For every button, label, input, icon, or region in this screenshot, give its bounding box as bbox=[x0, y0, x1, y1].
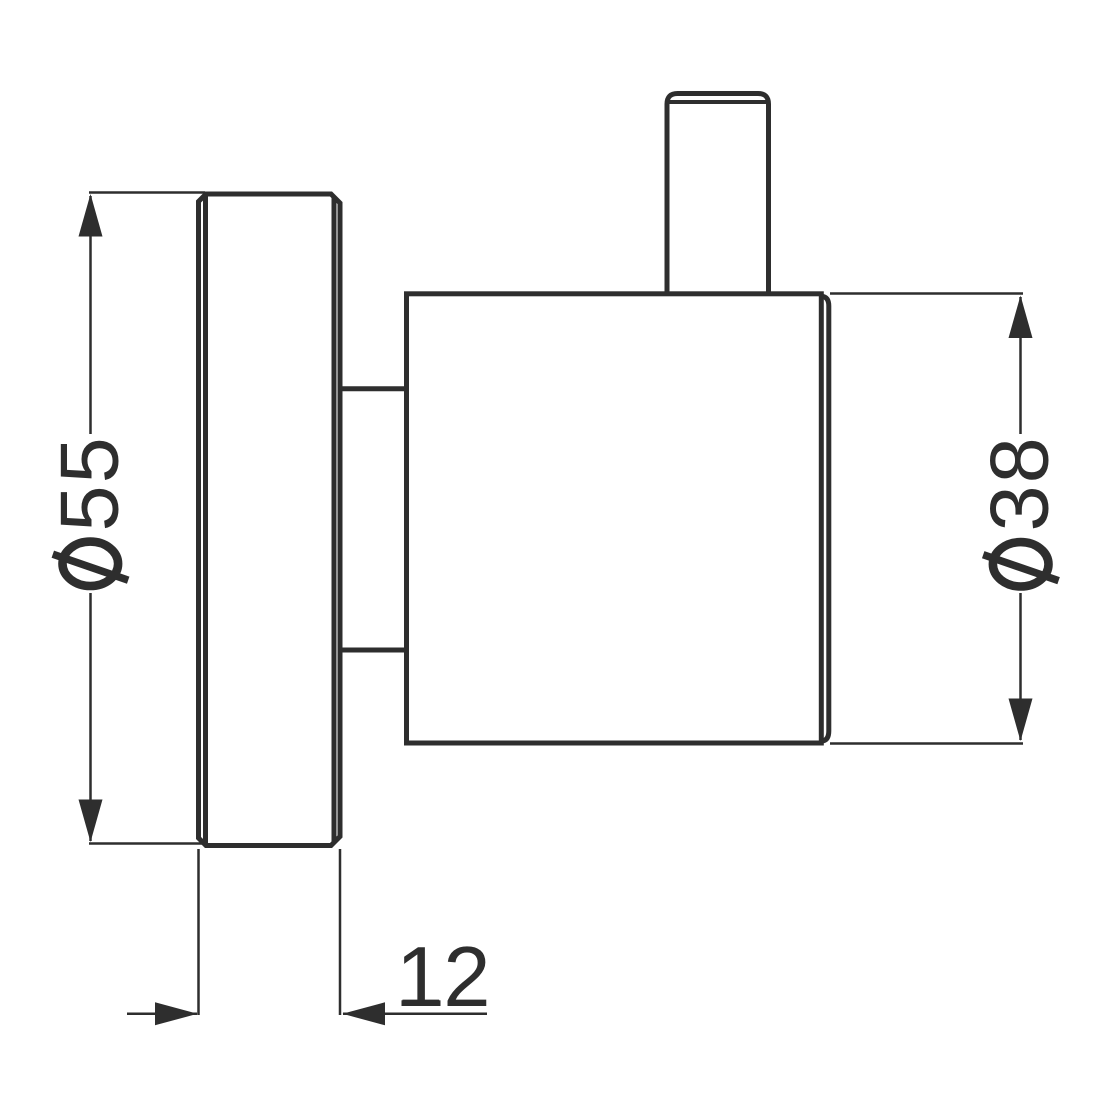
white mask behind Ø38 label bbox=[972, 434, 1068, 593]
dim Ø55 bottom arrowhead bbox=[79, 800, 103, 843]
neck top line between flange and body bbox=[339, 386, 406, 391]
label Ø38 diameter symbol bbox=[983, 542, 1058, 586]
dim Ø55 top extension line bbox=[89, 191, 205, 194]
dim Ø38 top extension line bbox=[830, 292, 1023, 295]
label 12 digit-1 bottom serif bar bbox=[402, 1000, 441, 1006]
dim 12 right dimension line bbox=[343, 1013, 487, 1016]
dim 12 right arrowhead bbox=[343, 1002, 386, 1025]
label Ø55 diameter symbol bbox=[53, 542, 128, 586]
dim Ø38 bottom extension line bbox=[830, 742, 1023, 745]
svg-text:38: 38 bbox=[973, 435, 1066, 531]
dim 12 left arrowhead bbox=[155, 1002, 198, 1025]
dim Ø38 bottom arrowhead bbox=[1009, 699, 1033, 742]
dim 12 right extension line bbox=[339, 849, 342, 1015]
dim 12 left extension line bbox=[197, 849, 200, 1015]
svg-text:12: 12 bbox=[396, 930, 491, 1025]
neck bottom line between flange and body bbox=[339, 648, 406, 653]
white mask behind Ø55 label bbox=[42, 434, 138, 593]
dim 12 left dimension line bbox=[127, 1013, 197, 1016]
flange left rim edge line bbox=[203, 197, 208, 844]
pin inner top edge line bbox=[669, 100, 767, 104]
dim Ø55 bottom extension line bbox=[89, 842, 205, 845]
dim Ø38 top arrowhead bbox=[1009, 296, 1033, 339]
dim Ø55 dimension line bbox=[89, 196, 92, 841]
top pin outline bbox=[667, 94, 769, 294]
body block outline bbox=[407, 294, 822, 743]
svg-text:55: 55 bbox=[43, 435, 136, 531]
wall flange plate outline (chamfered cylinder side view) bbox=[199, 194, 341, 846]
body right cylinder edge line bbox=[822, 296, 829, 741]
flange right rim edge line bbox=[332, 197, 337, 844]
dim Ø55 top arrowhead bbox=[79, 194, 103, 237]
dim Ø38 dimension line bbox=[1019, 297, 1022, 740]
